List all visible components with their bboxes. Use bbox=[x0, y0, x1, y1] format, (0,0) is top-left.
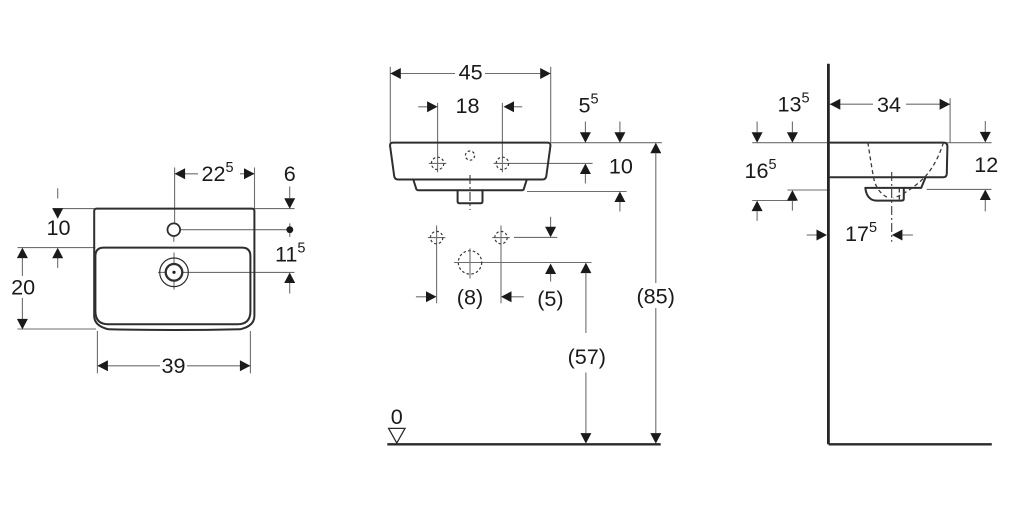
svg-text:12: 12 bbox=[974, 152, 998, 177]
svg-text:(5): (5) bbox=[537, 286, 563, 311]
svg-text:34: 34 bbox=[877, 92, 901, 117]
svg-text:(85): (85) bbox=[636, 283, 674, 308]
svg-text:20: 20 bbox=[11, 275, 35, 300]
svg-text:39: 39 bbox=[161, 353, 185, 378]
svg-text:(8): (8) bbox=[457, 285, 483, 310]
svg-text:(57): (57) bbox=[568, 344, 606, 369]
svg-text:45: 45 bbox=[459, 59, 483, 84]
svg-text:6: 6 bbox=[284, 161, 296, 186]
svg-text:18: 18 bbox=[455, 93, 479, 118]
svg-text:10: 10 bbox=[46, 215, 70, 240]
svg-text:10: 10 bbox=[609, 154, 633, 179]
svg-text:0: 0 bbox=[391, 404, 403, 429]
